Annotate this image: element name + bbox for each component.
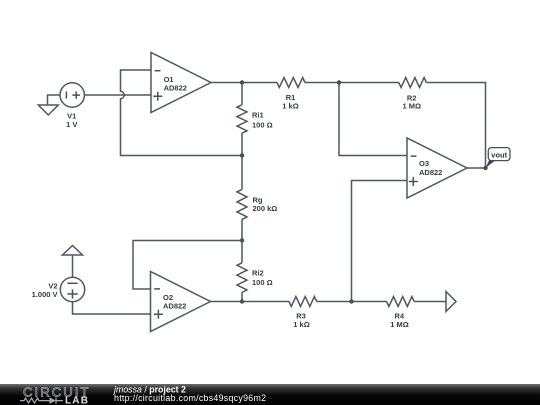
svg-text:Ri1: Ri1 bbox=[252, 111, 264, 120]
wire V2 to O2 + input bbox=[73, 302, 151, 314]
svg-text:1 MΩ: 1 MΩ bbox=[402, 102, 421, 111]
wire R2 to vout node bbox=[426, 83, 485, 169]
wire O2 output to R3 bbox=[211, 301, 290, 303]
resistor R3 bbox=[289, 297, 317, 330]
op-amp O1 bbox=[151, 53, 211, 113]
svg-text:100 Ω: 100 Ω bbox=[252, 278, 273, 287]
junction Rg bottom / O2 feedback / Ri2 top bbox=[240, 238, 244, 242]
resistor R1 bbox=[277, 78, 305, 111]
logo doodle resistor bbox=[20, 398, 50, 403]
voltage source V2 bbox=[32, 277, 85, 301]
svg-text:1.000 V: 1.000 V bbox=[32, 290, 58, 299]
svg-text:O3: O3 bbox=[419, 159, 429, 168]
op-amp O2 bbox=[151, 272, 211, 332]
svg-text:Ri2: Ri2 bbox=[252, 269, 264, 278]
resistor Ri2 bbox=[237, 241, 273, 302]
junction R1 / R2 / O3 - input bbox=[337, 80, 341, 84]
voltage source V1 bbox=[60, 83, 84, 129]
ground GND1 bbox=[38, 105, 58, 115]
svg-text:AD822: AD822 bbox=[419, 168, 442, 177]
svg-text:AD822: AD822 bbox=[164, 84, 187, 93]
resistor Ri1 bbox=[237, 83, 273, 156]
junction R3 / R4 / O3 + input bbox=[349, 299, 353, 303]
wire V1 to O1 + input bbox=[84, 94, 151, 96]
ground GND3 (right) bbox=[446, 292, 456, 312]
logo doodle diode bbox=[50, 397, 57, 403]
node vout flag bbox=[485, 148, 510, 169]
resistor R4 bbox=[387, 297, 415, 330]
svg-text:V2: V2 bbox=[48, 281, 57, 290]
junction Ri2 bottom / O2 output / R3 bbox=[240, 299, 244, 303]
resistor Rg bbox=[237, 156, 277, 241]
junction O1 output / Ri1 top bbox=[240, 80, 244, 84]
svg-text:Rg: Rg bbox=[253, 195, 263, 204]
wire V1 negative lead to ground bbox=[48, 95, 61, 105]
wire O2 - feedback bbox=[133, 241, 242, 290]
svg-text:100 Ω: 100 Ω bbox=[252, 121, 273, 130]
wire O1 - feedback with hop over V1 wire bbox=[121, 70, 243, 156]
svg-text:1 V: 1 V bbox=[66, 120, 77, 129]
wire O3 - input to R1/R2 node bbox=[339, 83, 407, 156]
svg-text:200 kΩ: 200 kΩ bbox=[253, 204, 278, 213]
wire ground to V2 bbox=[72, 255, 74, 277]
wire R3 to R4 bbox=[317, 301, 387, 303]
svg-text:vout: vout bbox=[491, 151, 508, 160]
svg-text:AD822: AD822 bbox=[163, 301, 186, 310]
junction Ri1 bottom / O1 feedback / Rg top bbox=[240, 153, 244, 157]
svg-text:http://circuitlab.com/cbs49sqc: http://circuitlab.com/cbs49sqcy96m2 bbox=[114, 393, 266, 403]
wire O1 output to R1 bbox=[211, 82, 277, 84]
ground GND2 (up) bbox=[62, 246, 82, 256]
svg-text:LAB: LAB bbox=[65, 395, 89, 405]
resistor R2 bbox=[399, 78, 427, 111]
op-amp O3 bbox=[407, 138, 467, 198]
wire O3 output bbox=[467, 167, 486, 169]
svg-text:1 MΩ: 1 MΩ bbox=[390, 320, 409, 329]
wire O3 + input to R3/R4 node bbox=[352, 181, 408, 302]
svg-text:O1: O1 bbox=[164, 75, 174, 84]
wire R4 to ground bbox=[414, 301, 446, 303]
junction vout node bbox=[483, 166, 487, 170]
svg-text:1 kΩ: 1 kΩ bbox=[282, 101, 298, 110]
svg-text:1 kΩ: 1 kΩ bbox=[293, 320, 309, 329]
wire R1 to R2 bbox=[305, 82, 399, 84]
